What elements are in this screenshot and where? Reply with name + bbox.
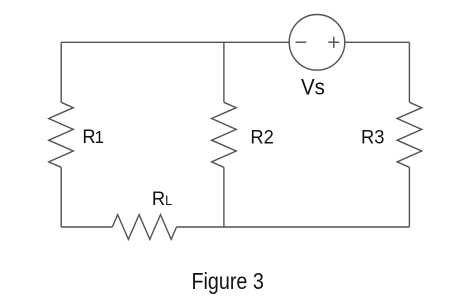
polarity minus sign [296, 41, 307, 43]
svg-text:R3: R3 [361, 127, 384, 149]
label R3 [361, 127, 384, 149]
wire bottom left segment [61, 226, 112, 228]
resistor R3 [397, 102, 422, 167]
resistor R1 [49, 102, 74, 167]
wire left side lower [60, 167, 62, 227]
wire top left segment [61, 41, 289, 43]
label R1 [82, 127, 104, 149]
wire right side upper [408, 42, 410, 102]
polarity plus sign horizontal [328, 41, 339, 43]
wire middle lower [223, 167, 225, 227]
polarity plus sign vertical [333, 37, 335, 48]
wire middle upper [223, 42, 225, 102]
voltage source Vs circle [289, 15, 345, 71]
svg-text:R2: R2 [250, 127, 273, 149]
label RL [152, 189, 172, 211]
wire bottom right segment [177, 226, 410, 228]
svg-text:Vs: Vs [301, 75, 325, 100]
label R2 [250, 127, 273, 149]
svg-text:RL: RL [152, 189, 172, 211]
svg-text:Figure 3: Figure 3 [192, 269, 264, 295]
svg-text:R1: R1 [82, 127, 104, 149]
caption Figure 3 [192, 269, 264, 295]
wire right side lower [408, 167, 410, 227]
wire top right segment [345, 41, 410, 43]
resistor R2 [212, 102, 237, 167]
wire left side upper [60, 42, 62, 102]
resistor RL [112, 215, 176, 240]
label Vs [301, 75, 325, 100]
